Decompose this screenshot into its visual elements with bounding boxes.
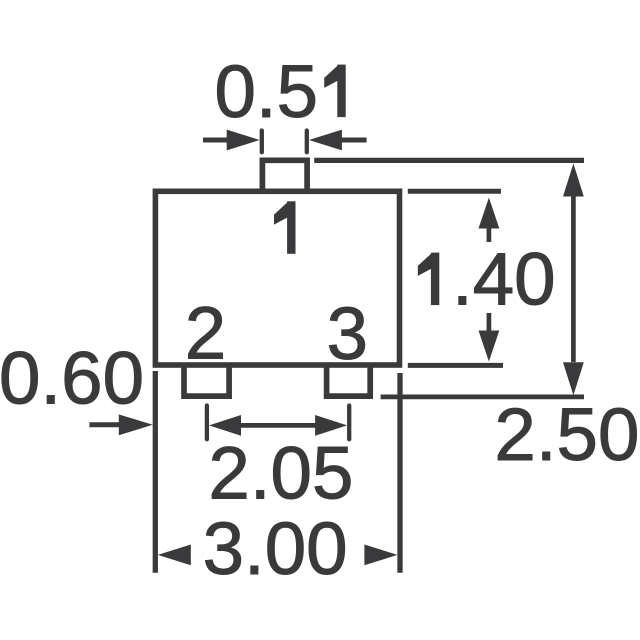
1.40 lower arrowhead <box>479 331 500 362</box>
svg-text:.40: .40 <box>452 238 556 321</box>
2.50 bottom arrowhead <box>563 362 584 395</box>
1.40 bottom extension line <box>408 363 503 368</box>
0.51 left arrow shaft <box>203 138 228 143</box>
package body outline <box>155 191 399 365</box>
1.40 upper arrowhead <box>479 198 500 229</box>
1.40 lower arrow shaft <box>487 313 492 332</box>
2.50 top reference line <box>314 158 584 163</box>
0.51 left arrowhead <box>227 130 260 151</box>
pin 1 top lead tab <box>262 160 307 193</box>
svg-text:2.05: 2.05 <box>208 432 353 515</box>
2.50 top arrowhead <box>563 164 584 197</box>
0.51 right arrow shaft <box>341 138 367 143</box>
pin label 1 <box>275 202 296 254</box>
svg-text:2.50: 2.50 <box>494 393 639 476</box>
2.05 left tick <box>205 406 209 440</box>
extension tick left of tab (0.51 dim) <box>260 131 264 153</box>
svg-text:0.60: 0.60 <box>0 337 144 420</box>
2.05 left arrowhead <box>209 415 241 436</box>
2.05 dimension shaft <box>240 423 316 428</box>
3.00 left arrowhead <box>158 545 191 566</box>
3.00 right extension line <box>397 373 402 573</box>
svg-text:2: 2 <box>185 292 226 375</box>
dimension text 1.40 <box>418 253 439 305</box>
0.60 arrowhead <box>119 414 153 435</box>
1.40 upper arrow shaft <box>487 226 492 242</box>
svg-text:3.00: 3.00 <box>203 507 348 590</box>
2.05 right arrowhead <box>315 415 347 436</box>
2.50 dimension line <box>571 195 576 362</box>
extension tick right of tab (0.51 dim) <box>305 131 309 153</box>
svg-text:0.5: 0.5 <box>215 50 319 133</box>
0.60 arrow shaft <box>89 422 120 427</box>
svg-text:3: 3 <box>327 292 368 375</box>
1.40 top extension line <box>408 189 501 194</box>
2.05 right tick <box>347 406 351 440</box>
3.00 left extension line <box>153 371 158 573</box>
2.50 bottom reference line <box>381 395 584 400</box>
0.51 right arrowhead <box>309 130 342 151</box>
pin 3 bottom-right lead <box>327 363 371 396</box>
pin 2 bottom-left lead <box>184 363 229 396</box>
3.00 right arrowhead <box>364 545 397 566</box>
